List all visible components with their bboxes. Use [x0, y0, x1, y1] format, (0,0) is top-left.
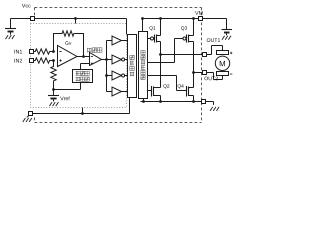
- pin GND right: [202, 100, 206, 104]
- junction power ground / logic box: [142, 100, 145, 103]
- transistor Q2 (NMOS): [148, 90, 152, 92]
- node op-amp inverting input: [52, 50, 55, 53]
- transistor Q3 (PMOS): [183, 37, 186, 40]
- node OUT1 (Q1 drain / Q2 drain): [159, 53, 162, 56]
- anti shoot-through box: [139, 32, 148, 99]
- label VM: [195, 11, 203, 15]
- label Q1: [149, 26, 155, 30]
- triangle wave generator box: [73, 70, 93, 83]
- wire OUT1 to motor: [207, 46, 223, 55]
- node op-amp output: [82, 55, 85, 58]
- label comparator (hanzi): [87, 48, 92, 53]
- junction power ground / Q4 source: [192, 100, 195, 103]
- wire OUT2 to motor: [207, 73, 223, 80]
- ground: [222, 36, 231, 40]
- ground: [6, 35, 15, 39]
- pin OUT1: [203, 53, 207, 57]
- transistor Q1 (PMOS): [150, 37, 153, 40]
- node Vcc feed to control block: [75, 19, 77, 24]
- label OUT1: [207, 38, 220, 42]
- ground: [49, 102, 58, 106]
- node OUT2 (Q3 drain / Q4 drain): [192, 71, 195, 74]
- label Q3: [181, 26, 187, 30]
- transistor Q4 (NMOS): [148, 76, 187, 91]
- capacitor C2 (VM decoupling): [222, 29, 233, 31]
- buffer U3: [107, 40, 113, 42]
- buffer U6: [107, 91, 113, 93]
- junction VM rail / Q1 source: [159, 17, 162, 20]
- hanzi labels drawn as stroke glyphs: [76, 48, 145, 82]
- label Vcc: [22, 4, 31, 8]
- label Q2: [163, 84, 169, 88]
- node Vref: [54, 83, 81, 90]
- wire signal ground line: [33, 98, 130, 114]
- pin Vcc: [31, 17, 35, 21]
- labels (latin): [14, 4, 224, 100]
- wire VM rail: [143, 19, 199, 32]
- motor M1: [217, 51, 229, 55]
- wire Vcc rail: [11, 19, 31, 29]
- pin GND left: [29, 112, 33, 116]
- junction VM rail / driver supply: [141, 17, 144, 20]
- junction power ground / Q2 source: [159, 100, 162, 103]
- label Q4: [178, 84, 184, 88]
- op-amp U1 (Gv): [58, 46, 78, 67]
- inverter U4: [107, 59, 113, 61]
- node op-amp non-inverting input: [52, 59, 55, 62]
- wire GND right external: [206, 102, 214, 105]
- comparator U2: [90, 53, 102, 66]
- junction VM rail / Q3 source: [192, 17, 195, 20]
- capacitor C3 (Vref): [48, 95, 59, 97]
- resistor R4 (Vref bias): [51, 61, 56, 90]
- label IN2: [14, 59, 22, 63]
- resistor R1 (IN1 input): [34, 49, 54, 54]
- label anti-shoot-through (hanzi, vertical): [141, 50, 145, 54]
- label triangle wave generator (hanzi): [76, 71, 80, 75]
- junction comparator output bus / inverter U5: [105, 74, 108, 77]
- wire comparator + input from triangle generator: [81, 64, 90, 70]
- pin IN1: [30, 50, 34, 54]
- inverter U5: [107, 75, 113, 77]
- wire comparator output bus: [102, 41, 107, 92]
- label Vref: [60, 96, 70, 100]
- junction Vcc rail / control block feed: [74, 17, 77, 20]
- resistor R3 (feedback) + wire: [54, 31, 84, 57]
- junction signal ground / control block: [81, 112, 84, 115]
- wire power ground rail: [141, 101, 202, 103]
- label Gv: [65, 41, 71, 45]
- label level-shift (hanzi, vertical): [130, 55, 134, 59]
- label M (motor): [220, 61, 225, 66]
- pin VM: [199, 17, 203, 21]
- ground (GND pin external): [27, 116, 29, 118]
- label IN1: [14, 50, 22, 54]
- capacitor C1 (Vcc decoupling): [5, 28, 16, 30]
- pin IN2: [30, 59, 34, 63]
- wire OUT1 net: [161, 54, 203, 56]
- pin OUT2: [203, 71, 207, 75]
- label OUT2: [204, 77, 217, 81]
- junction comparator output bus / inverter U4: [105, 58, 108, 61]
- node Vref: [52, 88, 55, 91]
- resistor R2 (IN2 input): [34, 58, 54, 63]
- wire OUT2 net: [194, 72, 203, 74]
- outer dashed IC boundary: [35, 8, 202, 123]
- inner dotted control-block boundary: [31, 24, 127, 108]
- level shift box: [128, 35, 137, 98]
